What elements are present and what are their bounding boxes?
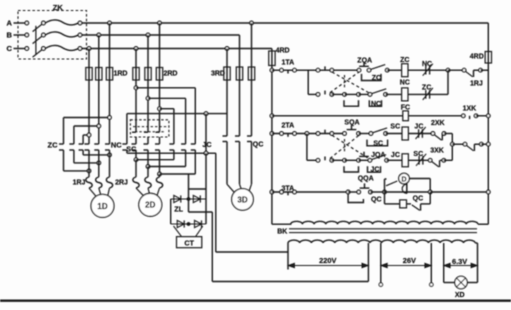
svg-text:6.3V: 6.3V — [452, 257, 467, 266]
svg-text:ZL: ZL — [174, 205, 183, 214]
svg-text:QC: QC — [371, 196, 382, 203]
svg-text:ZC: ZC — [400, 57, 409, 64]
svg-text:ZK: ZK — [53, 3, 64, 12]
svg-text:2RD: 2RD — [163, 71, 177, 78]
svg-text:SC: SC — [373, 140, 383, 147]
svg-text:CT: CT — [184, 238, 194, 247]
svg-text:3RD: 3RD — [211, 71, 225, 78]
svg-text:1RJ: 1RJ — [470, 80, 483, 87]
svg-text:C: C — [6, 44, 12, 53]
svg-text:220V: 220V — [319, 256, 336, 265]
svg-text:1XK: 1XK — [463, 106, 477, 113]
svg-text:B: B — [6, 31, 12, 40]
svg-text:ZC: ZC — [372, 75, 381, 82]
svg-text:26V: 26V — [403, 256, 416, 265]
svg-text:SC: SC — [413, 151, 423, 158]
svg-text:ZC: ZC — [48, 140, 59, 149]
svg-text:D: D — [401, 176, 406, 183]
svg-text:QQA: QQA — [358, 176, 374, 183]
svg-text:1D: 1D — [97, 202, 107, 211]
svg-text:4RD: 4RD — [470, 54, 484, 61]
svg-text:1RJ: 1RJ — [73, 180, 86, 187]
svg-text:1TA: 1TA — [281, 60, 294, 67]
svg-text:2D: 2D — [145, 201, 155, 210]
svg-text:JC: JC — [202, 140, 211, 149]
svg-text:SC: SC — [390, 124, 400, 131]
svg-text:4RD: 4RD — [276, 48, 290, 55]
svg-text:NC: NC — [371, 101, 381, 108]
svg-text:NC: NC — [400, 79, 410, 86]
svg-text:3XK: 3XK — [430, 147, 444, 154]
svg-text:ZC: ZC — [422, 84, 431, 91]
svg-text:2XK: 2XK — [431, 120, 445, 127]
svg-text:JC: JC — [414, 123, 423, 130]
svg-text:1RD: 1RD — [113, 71, 127, 78]
svg-text:NC: NC — [111, 141, 122, 150]
svg-text:A: A — [6, 19, 12, 28]
svg-text:JC: JC — [371, 167, 380, 174]
svg-text:JC: JC — [391, 152, 400, 159]
svg-text:2RJ: 2RJ — [115, 180, 128, 187]
svg-text:NC: NC — [422, 61, 432, 68]
svg-text:BK: BK — [277, 229, 287, 236]
svg-text:FC: FC — [401, 104, 410, 111]
svg-text:QC: QC — [413, 195, 424, 202]
svg-text:ZQA: ZQA — [357, 57, 372, 64]
svg-text:XD: XD — [455, 292, 465, 299]
svg-text:SQA: SQA — [344, 119, 359, 126]
svg-text:3TA: 3TA — [281, 185, 294, 192]
svg-text:SC: SC — [126, 144, 136, 153]
svg-text:2TA: 2TA — [281, 122, 294, 129]
svg-text:QC: QC — [253, 139, 264, 148]
svg-text:3D: 3D — [237, 195, 247, 204]
